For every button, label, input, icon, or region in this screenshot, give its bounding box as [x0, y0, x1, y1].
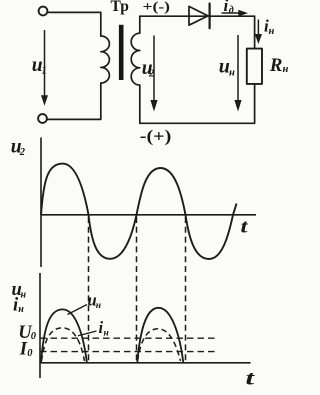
primary winding of transformer Tp: [101, 36, 110, 83]
svg-text:1: 1: [42, 66, 47, 77]
I0 dashed level line: [40, 351, 218, 353]
wire diode cathode to resistor: [254, 16, 256, 48]
svg-text:0: 0: [27, 348, 33, 359]
svg-text:+(-): +(-): [143, 0, 171, 14]
svg-text:д: д: [229, 5, 234, 16]
svg-text:2: 2: [19, 147, 26, 158]
pointer line for in curve label: [78, 331, 97, 336]
arrow id (diode current): [222, 12, 240, 14]
terminal X1 (top-left input): [39, 7, 48, 16]
svg-text:-(+): -(+): [140, 127, 172, 146]
terminal X2 (bottom-left input): [38, 114, 47, 123]
svg-text:t: t: [246, 368, 257, 390]
svg-text:i: i: [224, 0, 229, 15]
un plot vertical axis: [39, 273, 41, 378]
svg-text:Тр: Тр: [111, 0, 129, 15]
wire primary bottom to terminal X2: [47, 83, 101, 119]
svg-text:н: н: [21, 289, 27, 300]
svg-text:н: н: [283, 64, 289, 75]
svg-text:t: t: [241, 217, 249, 238]
pointer line for un curve label: [68, 305, 88, 315]
svg-text:0: 0: [31, 331, 37, 342]
diode VD cathode bar: [209, 4, 211, 29]
arrow un: [237, 35, 239, 100]
svg-text:н: н: [269, 26, 275, 37]
un plot horizontal axis t: [40, 362, 251, 364]
dashed vertical line at first zero crossing: [88, 217, 90, 362]
arrow u2: [153, 36, 155, 101]
svg-text:н: н: [96, 301, 101, 311]
u2 plot vertical axis: [40, 138, 42, 268]
in dashed hump 1: [42, 328, 85, 361]
arrow in (load current): [257, 20, 259, 36]
svg-text:2: 2: [148, 69, 155, 80]
u2 plot horizontal axis t: [41, 214, 256, 216]
resistor Rn body: [247, 49, 262, 84]
un solid hump 2: [137, 308, 183, 362]
wire secondary top: [140, 15, 255, 17]
u2 sine curve: [41, 164, 237, 259]
svg-text:н: н: [18, 304, 24, 315]
wire top-left to primary: [48, 12, 101, 36]
dashed vertical line at third zero crossing: [185, 217, 187, 362]
svg-text:н: н: [104, 329, 109, 339]
svg-text:R: R: [269, 55, 283, 76]
in dashed hump 2: [138, 329, 181, 361]
transformer core: [119, 25, 124, 80]
U0 dashed level line: [40, 337, 218, 339]
arrow u1: [44, 30, 46, 96]
secondary winding of transformer Tp: [131, 16, 140, 85]
diode VD triangle: [189, 6, 208, 25]
wire secondary bottom loop: [140, 84, 255, 123]
dashed vertical line at second zero crossing: [136, 217, 138, 362]
svg-text:н: н: [229, 68, 235, 79]
un solid hump 1: [41, 309, 87, 362]
